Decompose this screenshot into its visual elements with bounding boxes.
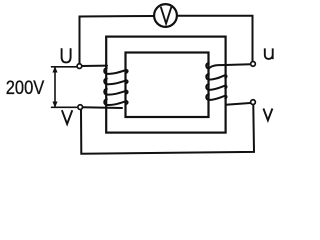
transformer core inner rectangle bbox=[126, 53, 209, 118]
terminal u circle bbox=[251, 62, 256, 67]
svg-text:200V: 200V bbox=[6, 78, 45, 99]
terminal v circle bbox=[251, 100, 256, 105]
primary coil right nubs bbox=[126, 70, 127, 73]
wire U terminal to primary coil top bbox=[82, 65, 107, 67]
voltmeter V label bbox=[161, 8, 171, 24]
transformer core outer rectangle bbox=[106, 37, 225, 133]
dimension reference line U level bbox=[52, 66, 77, 68]
wire voltmeter to u terminal riser bbox=[177, 16, 252, 61]
secondary coil left hooks bbox=[206, 63, 209, 69]
label u bbox=[265, 48, 273, 59]
primary coil winding turns bbox=[104, 68, 127, 105]
terminal V circle bbox=[78, 105, 83, 110]
label U bbox=[62, 48, 71, 62]
voltmeter V1 bbox=[154, 4, 177, 27]
dimension arrow down bbox=[52, 102, 57, 108]
dimension reference line V level bbox=[52, 106, 77, 108]
secondary coil winding turns bbox=[206, 63, 250, 100]
wire V terminal to primary coil bottom bbox=[83, 106, 122, 109]
label V bbox=[62, 110, 72, 124]
secondary top lead to u terminal bbox=[209, 64, 251, 69]
dimension arrow up bbox=[52, 67, 57, 73]
terminal U circle bbox=[77, 64, 82, 69]
wire U terminal up and across to voltmeter bbox=[80, 16, 154, 64]
label v bbox=[263, 109, 272, 121]
dimension line 200V bbox=[54, 68, 56, 106]
secondary coil right nubs bbox=[225, 75, 226, 78]
wire v terminal down, bottom run, up to V terminal bbox=[81, 105, 254, 154]
wire secondary to v terminal bbox=[226, 103, 250, 105]
primary coil left hooks bbox=[104, 68, 107, 74]
